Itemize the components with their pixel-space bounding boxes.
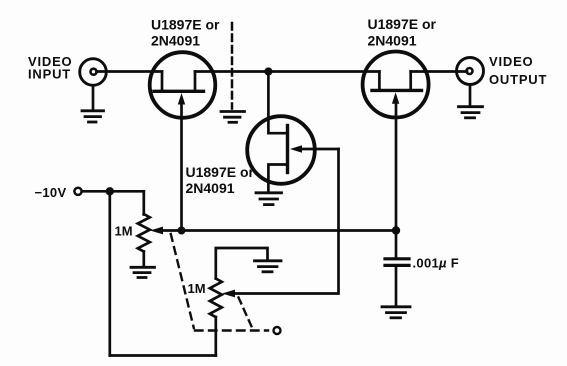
- ground at R1: [131, 267, 155, 277]
- wire R2 top to bracket ground: [216, 248, 268, 279]
- ground at bracket: [255, 261, 282, 272]
- wire bottom run to R2: [110, 354, 216, 357]
- svg-text:U1897E or: U1897E or: [151, 17, 220, 33]
- capacitor C1 .001uF: [385, 231, 409, 307]
- node A junction: [264, 67, 272, 75]
- terminal gang control open circle: [274, 327, 281, 334]
- wire J2 to ground: [469, 85, 472, 107]
- transistor Q2 (JFET, middle): [247, 116, 338, 191]
- wire J1 to ground: [92, 86, 95, 111]
- label Q2 U1897E or 2N4091: [186, 164, 255, 196]
- wire Q1 gate down to wiper bus: [180, 100, 183, 231]
- ground at J2: [459, 107, 483, 118]
- svg-text:OUTPUT: OUTPUT: [489, 72, 547, 87]
- svg-text:U1897E or: U1897E or: [368, 16, 437, 32]
- ground at J1: [82, 111, 104, 122]
- svg-text:2N4091: 2N4091: [186, 180, 235, 196]
- label R2 1M: [188, 281, 206, 296]
- dashed shield line at Q1: [231, 23, 234, 109]
- wire -10V to R1 top: [82, 190, 144, 193]
- svg-text:INPUT: INPUT: [28, 67, 71, 82]
- node -10V junction: [106, 187, 114, 195]
- transistor Q1 (JFET, left): [150, 52, 216, 118]
- svg-text:U1897E or: U1897E or: [186, 164, 255, 180]
- label C1 .001uF: [413, 255, 459, 270]
- wire wiper bus R1 to node B: [158, 229, 396, 232]
- potentiometer R2 1M: [210, 279, 235, 356]
- label Q3 U1897E or 2N4091: [368, 16, 437, 49]
- label -10V: [35, 185, 67, 200]
- wire Q3 source to J2: [411, 70, 467, 73]
- connector J2 video output: [457, 58, 484, 85]
- wire J1 to Q1 drain: [97, 70, 163, 73]
- ground at Q2 source: [256, 193, 282, 205]
- svg-text:−10V: −10V: [35, 185, 67, 200]
- terminal -10V open circle: [74, 188, 81, 195]
- svg-text:2N4091: 2N4091: [368, 33, 417, 49]
- label R1 1M: [115, 224, 133, 239]
- node R1 wiper / Q1 gate junction: [178, 227, 186, 235]
- svg-text:VIDEO: VIDEO: [489, 54, 533, 69]
- dashed gang link horizontal: [195, 329, 268, 331]
- label VIDEO INPUT: [28, 54, 72, 82]
- wire left column down: [108, 191, 111, 355]
- svg-text:1M: 1M: [188, 281, 206, 296]
- dashed gang link R2 wiper diagonal: [239, 298, 253, 328]
- svg-text:2N4091: 2N4091: [151, 33, 200, 49]
- label Q1 U1897E or 2N4091: [151, 17, 220, 49]
- wire Q2 gate to R2 wiper: [230, 149, 339, 294]
- svg-text:.001µ F: .001µ F: [413, 255, 459, 270]
- label VIDEO OUTPUT: [489, 54, 547, 87]
- ground at C1: [382, 307, 410, 318]
- transistor Q3 (JFET, right): [363, 52, 429, 118]
- wire node A down to Q2 drain: [268, 72, 286, 134]
- potentiometer R1 1M: [138, 191, 163, 266]
- connector J1 video input: [80, 59, 107, 86]
- wire Q3 gate down to node B: [395, 99, 398, 231]
- svg-text:1M: 1M: [115, 224, 133, 239]
- wire Q1 source to node A: [195, 70, 379, 73]
- node B junction: [392, 226, 400, 234]
- dashed gang link R1 wiper diagonal: [171, 234, 194, 328]
- ground at dashed shield: [221, 112, 245, 123]
